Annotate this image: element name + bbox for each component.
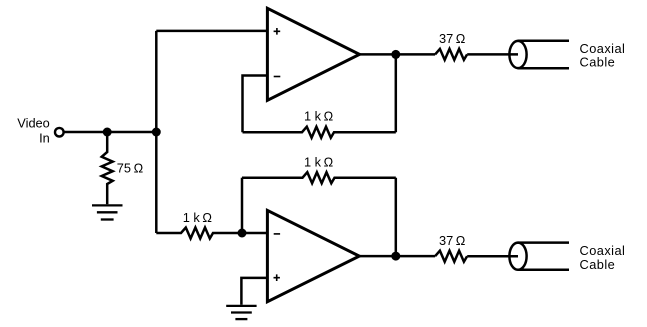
U1 - input marker [274, 76, 281, 78]
ground (below 75 ohm) [92, 205, 123, 219]
resistor 1 kOhm (U1 feedback) [243, 127, 396, 138]
label Coaxial Cable (bottom) [580, 243, 626, 272]
wire: U1 inverting input to feedback corner [243, 76, 267, 133]
wire: U2 output [359, 255, 435, 258]
svg-text:Coaxial: Coaxial [580, 41, 626, 56]
wire: vertical input bus down to U2 input resistor [155, 132, 158, 233]
svg-text:Coaxial: Coaxial [580, 243, 626, 258]
svg-text:37 Ω: 37 Ω [439, 31, 466, 46]
wire: feedback left vertical (U2) [241, 178, 244, 233]
resistor 75 ohm [102, 132, 113, 204]
wire: U1 output [360, 53, 436, 56]
node: U2 inverting input junction [238, 229, 247, 238]
node: input split junction [152, 128, 161, 137]
wire: 37 ohm to coax center conductor (top) [467, 53, 518, 56]
ground (U2 + input) [226, 306, 256, 319]
svg-text:Cable: Cable [580, 55, 616, 70]
node: U1 output junction [391, 50, 400, 59]
svg-text:In: In [39, 130, 50, 145]
wire: top run to U1 non-inverting input [156, 30, 267, 33]
coax connector barrel (top) [509, 41, 526, 68]
coax cylinder lines (bottom) [518, 243, 570, 270]
wire: input terminal to split junction [64, 131, 156, 134]
input terminal (open circle) [55, 128, 64, 137]
wire: feedback down to U2 output node [395, 178, 398, 257]
wire: 37 ohm to coax center conductor (bottom) [467, 255, 518, 258]
coax cylinder lines (top) [518, 41, 570, 68]
wire: feedback up to U1 output node [395, 54, 398, 132]
svg-text:1 k Ω: 1 k Ω [304, 154, 334, 169]
wire: vertical input bus (junction up to top wire) [155, 31, 158, 132]
svg-text:37 Ω: 37 Ω [439, 233, 466, 248]
resistor 37 ohm (top) [435, 49, 467, 60]
node: 75 ohm tap junction [103, 128, 112, 137]
U2 - input marker [274, 233, 280, 235]
resistor 37 ohm (bottom) [435, 251, 467, 262]
resistor 1 kOhm (U2 input) [156, 228, 267, 239]
op-amp U2 [267, 210, 359, 301]
label Video In [17, 116, 50, 146]
op-amp U1 [267, 8, 359, 100]
svg-text:Cable: Cable [580, 257, 616, 272]
U2 + input marker [274, 274, 280, 281]
resistor 1 kOhm (U2 feedback) [242, 172, 396, 183]
coax connector barrel (bottom) [509, 243, 526, 270]
U1 + input marker [274, 28, 281, 35]
svg-text:75 Ω: 75 Ω [117, 161, 144, 176]
svg-text:Video: Video [17, 116, 50, 131]
label Coaxial Cable (top) [580, 41, 626, 70]
svg-text:1 k Ω: 1 k Ω [304, 109, 334, 124]
wire: U2 non-inverting input to ground [241, 278, 267, 305]
svg-text:1 k Ω: 1 k Ω [183, 210, 213, 225]
node: U2 output junction [391, 252, 400, 261]
